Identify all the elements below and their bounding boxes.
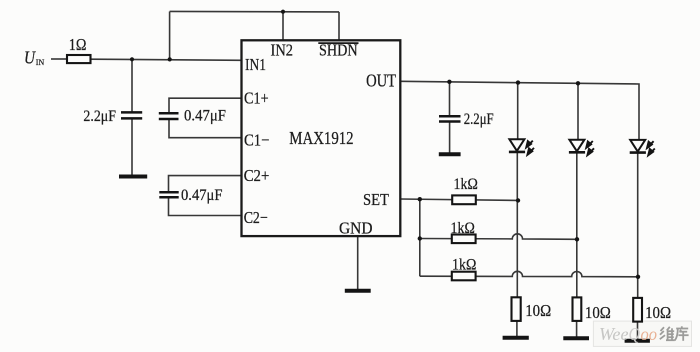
svg-text:C1+: C1+ <box>244 89 269 108</box>
svg-text:IN2: IN2 <box>271 41 294 60</box>
svg-text:10Ω: 10Ω <box>585 303 611 322</box>
svg-text:SET: SET <box>363 190 390 209</box>
svg-text:1kΩ: 1kΩ <box>451 220 475 237</box>
svg-text:C2−: C2− <box>244 208 268 227</box>
svg-text:Q: Q <box>629 324 641 344</box>
svg-text:OUT: OUT <box>366 70 396 90</box>
svg-text:10Ω: 10Ω <box>525 301 551 320</box>
svg-text:10Ω: 10Ω <box>645 303 671 322</box>
svg-text:1kΩ: 1kΩ <box>452 257 476 274</box>
svg-text:1kΩ: 1kΩ <box>454 176 478 193</box>
svg-text:C1−: C1− <box>244 130 269 149</box>
svg-text:SHDN: SHDN <box>319 41 358 60</box>
svg-text:2.2μF: 2.2μF <box>464 111 494 128</box>
svg-text:U: U <box>24 47 36 67</box>
svg-text:2.2μF: 2.2μF <box>83 108 116 125</box>
svg-text:oo: oo <box>641 324 658 344</box>
svg-text:Wee: Wee <box>599 324 629 344</box>
svg-text:0.47μF: 0.47μF <box>181 187 223 204</box>
svg-text:GND: GND <box>339 218 373 237</box>
svg-text:IN1: IN1 <box>245 55 266 74</box>
svg-text:0.47μF: 0.47μF <box>184 107 226 124</box>
svg-text:IN: IN <box>36 58 45 67</box>
svg-text:MAX1912: MAX1912 <box>289 128 353 148</box>
svg-text:C2+: C2+ <box>244 166 270 185</box>
svg-text:1Ω: 1Ω <box>69 35 87 54</box>
